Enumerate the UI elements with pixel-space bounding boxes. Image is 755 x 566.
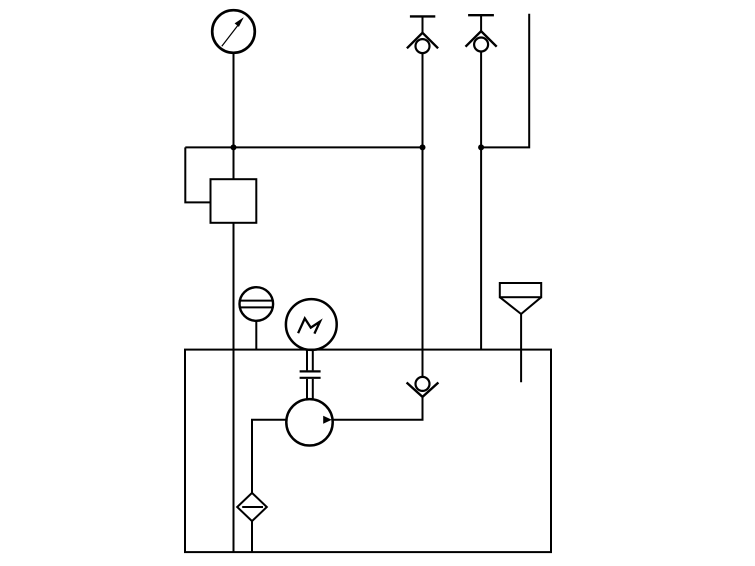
filler funnel FL1 bbox=[500, 283, 541, 314]
wire gauge stem bbox=[233, 53, 235, 148]
wire breather stem bbox=[255, 321, 257, 350]
wire right branch bbox=[481, 14, 529, 148]
node junction B (CV1 line / header end) bbox=[420, 144, 426, 150]
check valve CV3 bbox=[407, 377, 439, 397]
wire pump suction bbox=[252, 420, 286, 493]
wire CV2 down to tank top bbox=[480, 52, 482, 350]
node junction C (CV2 line / right branch) bbox=[478, 144, 484, 150]
check valve CV2 bbox=[466, 15, 497, 51]
wire header horizontal bbox=[185, 146, 422, 148]
pressure gauge PG1 bbox=[212, 10, 255, 53]
wire block bottom to tank bottom bbox=[233, 223, 235, 552]
valve block V1 bbox=[211, 179, 257, 223]
wire funnel stem bbox=[520, 314, 522, 382]
filter F1 bbox=[237, 493, 267, 521]
tank T1 bbox=[185, 350, 551, 552]
check valve CV1 bbox=[407, 16, 438, 53]
node junction A (gauge line / header) bbox=[231, 144, 237, 150]
wire CV1 down to CV3 bbox=[422, 53, 424, 377]
pump P1 bbox=[286, 399, 332, 445]
wire pump outlet bbox=[333, 397, 423, 420]
wire left branch to valve block bbox=[185, 147, 210, 202]
motor M1 bbox=[286, 299, 337, 350]
coupling / drive shaft bbox=[300, 350, 321, 399]
wire header to block top bbox=[233, 147, 235, 179]
wire filter to tank bottom bbox=[251, 521, 253, 552]
breather B1 bbox=[239, 287, 273, 321]
